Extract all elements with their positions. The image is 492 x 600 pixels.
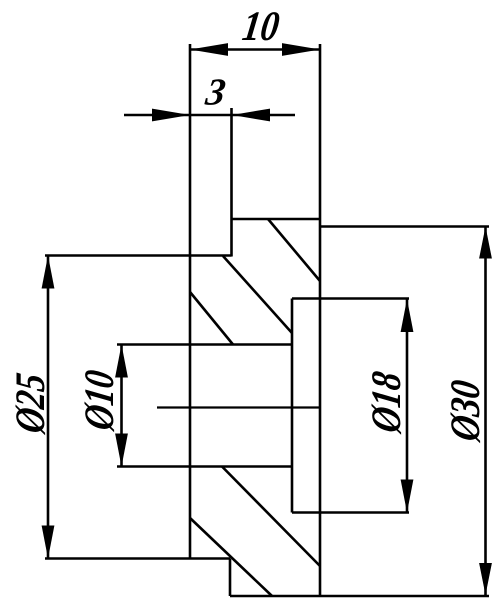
hole top edge / extension line of dia10 bbox=[117, 343, 292, 346]
recess bottom edge / extension line of dia18 bbox=[292, 511, 409, 514]
hatch line upper 2 bbox=[223, 256, 292, 333]
dimension line 10 bbox=[190, 48, 320, 51]
extension line top of dia30 bbox=[320, 225, 489, 228]
arrow dim10 right bbox=[282, 43, 320, 56]
dimension text dia25 bbox=[16, 373, 46, 436]
recess inner face bbox=[291, 299, 294, 513]
hatch line upper 3 bbox=[190, 292, 233, 345]
dimension text 3 bbox=[204, 79, 225, 105]
part right face / extension line of dim 10 bbox=[319, 44, 322, 596]
dimension text dia18 bbox=[372, 371, 402, 434]
step edge collar-to-flange lower bbox=[229, 559, 232, 597]
dimension line dia18 bbox=[406, 299, 409, 513]
dimension line dia10 bbox=[120, 345, 123, 467]
flange bottom edge / extension line of dia30 bbox=[230, 595, 489, 598]
part left face / extension line of dim 10 bbox=[189, 44, 192, 559]
hatch line lower 2 bbox=[190, 518, 272, 596]
arrow dim3 left bbox=[152, 109, 190, 122]
hatch line upper 1 bbox=[268, 219, 320, 281]
arrow dia10 top bbox=[115, 345, 128, 378]
arrow dia30 top bbox=[479, 227, 492, 259]
dimension text dia10 bbox=[85, 370, 115, 432]
arrow dia30 bottom bbox=[479, 563, 492, 595]
dimension line 3 bbox=[124, 114, 295, 117]
arrow dia25 top bbox=[42, 256, 55, 289]
arrow dia18 bottom bbox=[401, 480, 414, 513]
dimension text dia30 bbox=[451, 380, 481, 443]
arrow dia25 bottom bbox=[42, 526, 55, 559]
flange top edge bbox=[232, 218, 321, 221]
dimension line dia25 bbox=[47, 256, 50, 559]
collar top edge / extension line of dia25 bbox=[45, 254, 232, 257]
arrow dim10 left bbox=[190, 43, 228, 56]
hole bottom edge / extension line of dia10 bbox=[117, 465, 292, 468]
collar bottom edge / extension line of dia25 bbox=[45, 557, 230, 560]
centerline axis bbox=[157, 406, 320, 408]
hatch line lower 1 bbox=[222, 467, 320, 567]
dimension text 10 bbox=[242, 12, 279, 40]
arrow dia10 bottom bbox=[115, 434, 128, 467]
arrow dia18 top bbox=[401, 299, 414, 332]
recess top edge / extension line of dia18 bbox=[292, 297, 409, 300]
step edge collar-to-flange upper / extension line of dim 3 bbox=[230, 108, 233, 257]
arrow dim3 right bbox=[232, 109, 270, 122]
dimension line dia30 bbox=[484, 227, 487, 596]
